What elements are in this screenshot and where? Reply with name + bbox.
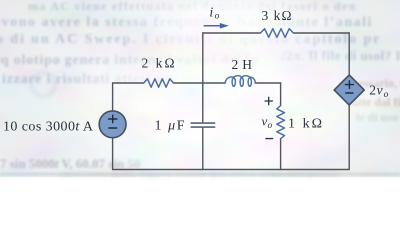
ghost page text (bleed-through) <box>28 0 357 14</box>
current arrow io <box>204 25 220 27</box>
resistor 3 kOhm (top bus) <box>261 29 294 38</box>
wire: left side below source <box>112 138 114 170</box>
white halo over figure area <box>0 0 400 177</box>
source circle (10 cos 3000t A) <box>99 111 126 138</box>
svg-text:2 kΩ: 2 kΩ <box>142 56 175 71</box>
capacitor 1 uF: top plate <box>191 122 214 124</box>
resistor 1 kOhm (vertical branch) <box>277 106 285 139</box>
svg-text:1 kΩ: 1 kΩ <box>288 117 322 132</box>
wire: left side above source <box>112 83 114 111</box>
wire: top bus right segment <box>293 32 349 34</box>
svg-text:3 kΩ: 3 kΩ <box>262 8 292 23</box>
wire: middle bus, left lead to 2k resistor <box>113 82 144 84</box>
source plus sign <box>109 115 117 123</box>
wire: vertical from top bus node down to middle bus junction <box>202 33 204 83</box>
polarity minus below vo <box>266 138 273 140</box>
wire: 1k branch upper lead <box>280 83 282 106</box>
wire: top bus left segment <box>203 32 261 34</box>
bottom page edge shadow <box>0 172 400 176</box>
wire: right side above diamond <box>348 33 350 75</box>
wire: 1k branch lower lead <box>280 139 282 170</box>
source minus sign <box>109 127 117 129</box>
wire: capacitor branch lower lead <box>202 128 204 170</box>
paper mottle <box>0 0 400 177</box>
svg-text:o: o <box>215 12 220 22</box>
capacitor 1 uF: bottom plate <box>191 126 214 128</box>
svg-text:i: i <box>209 6 213 21</box>
svg-text:1 μF: 1 μF <box>155 118 185 133</box>
resistor 2 kOhm (middle bus) <box>144 79 174 87</box>
svg-text:2 H: 2 H <box>232 57 253 72</box>
dependent source diamond 2vo <box>334 75 364 105</box>
svg-text:10 cos 3000t A: 10 cos 3000t A <box>3 120 94 135</box>
wire: middle bus, 2k resistor to inductor <box>174 82 226 84</box>
wire: right side below diamond <box>348 105 350 170</box>
wire: middle bus, inductor to 1k corner <box>255 82 280 84</box>
svg-text:o: o <box>268 121 273 131</box>
diamond plus sign <box>345 81 353 89</box>
polarity plus above vo <box>265 97 272 104</box>
svg-text:o: o <box>384 90 389 100</box>
wire: capacitor branch upper lead <box>202 83 204 123</box>
svg-text:2v: 2v <box>369 83 382 98</box>
inductor 2 H <box>225 76 255 87</box>
wire: bottom bus <box>113 169 350 171</box>
diamond minus sign <box>346 92 353 94</box>
